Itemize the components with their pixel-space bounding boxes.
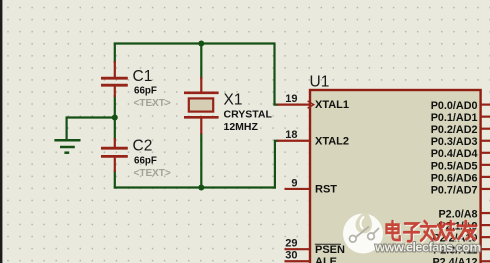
svg-text:18: 18 [285,129,297,141]
watermark logo circle [343,212,383,254]
IC U1 body (8051 MCU) [310,90,481,263]
wire crystal top [200,43,202,80]
svg-text:P2.0/A8: P2.0/A8 [438,208,477,220]
pin 18 XTAL2 [277,140,310,142]
pin 9 RST [285,188,311,190]
wire XTAL2 riser [275,141,279,189]
svg-text:66pF: 66pF [134,156,157,167]
wire crystal bottom [200,133,202,189]
node top junction [198,41,204,47]
wire bottom rail [114,186,276,188]
pin 19 XTAL1 [277,103,310,105]
svg-text:ALE: ALE [315,256,337,263]
wire XTAL1 drop [275,44,279,105]
svg-text:P0.1/AD1: P0.1/AD1 [431,112,478,124]
svg-text:P0.6/AD6: P0.6/AD6 [431,172,478,184]
svg-text:30: 30 [285,250,297,262]
svg-text:PSEN: PSEN [315,244,345,256]
svg-text:C1: C1 [133,68,153,85]
wire C1-C2 mid [114,95,116,140]
svg-text:C2: C2 [133,138,153,155]
svg-text:66pF: 66pF [134,86,157,97]
svg-text:<TEXT>: <TEXT> [134,98,171,109]
svg-text:12MHZ: 12MHZ [224,121,259,133]
svg-text:P0.3/AD3: P0.3/AD3 [431,136,478,148]
node mid junction [112,115,118,121]
svg-text:CRYSTAL: CRYSTAL [224,109,273,121]
wire C1 top stub [114,43,116,64]
svg-text:P0.4/AD4: P0.4/AD4 [431,148,478,160]
svg-text:<TEXT>: <TEXT> [134,168,171,179]
wire ground branch [67,118,115,140]
left image border [0,0,2,263]
capacitor C2 [101,138,128,172]
svg-text:P0.7/AD7: P0.7/AD7 [431,184,478,196]
svg-text:www.elecfans.com: www.elecfans.com [374,240,481,255]
svg-text:9: 9 [291,177,297,189]
svg-text:P2.4/A12: P2.4/A12 [432,257,477,263]
svg-text:P0.0/AD0: P0.0/AD0 [431,100,478,112]
wire C2 bottom stub [114,170,116,189]
capacitor C1 [101,61,128,97]
right pin labels [431,100,478,263]
wire top rail [114,42,276,44]
svg-text:XTAL1: XTAL1 [315,99,349,111]
pin 30 ALE [285,260,311,262]
node bottom junction [198,185,204,191]
svg-text:29: 29 [285,238,297,250]
svg-text:U1: U1 [310,74,330,91]
right pin stubs P0.0-P0.7 [481,105,490,262]
svg-text:RST: RST [315,184,337,196]
crystal X1 [184,77,219,134]
svg-text:XTAL2: XTAL2 [315,135,349,147]
svg-text:P0.5/AD5: P0.5/AD5 [431,160,478,172]
pin 29 PSEN [285,248,311,250]
svg-text:P0.2/AD2: P0.2/AD2 [431,124,478,136]
ground [54,140,80,152]
svg-text:X1: X1 [224,92,243,109]
svg-text:19: 19 [285,93,297,105]
